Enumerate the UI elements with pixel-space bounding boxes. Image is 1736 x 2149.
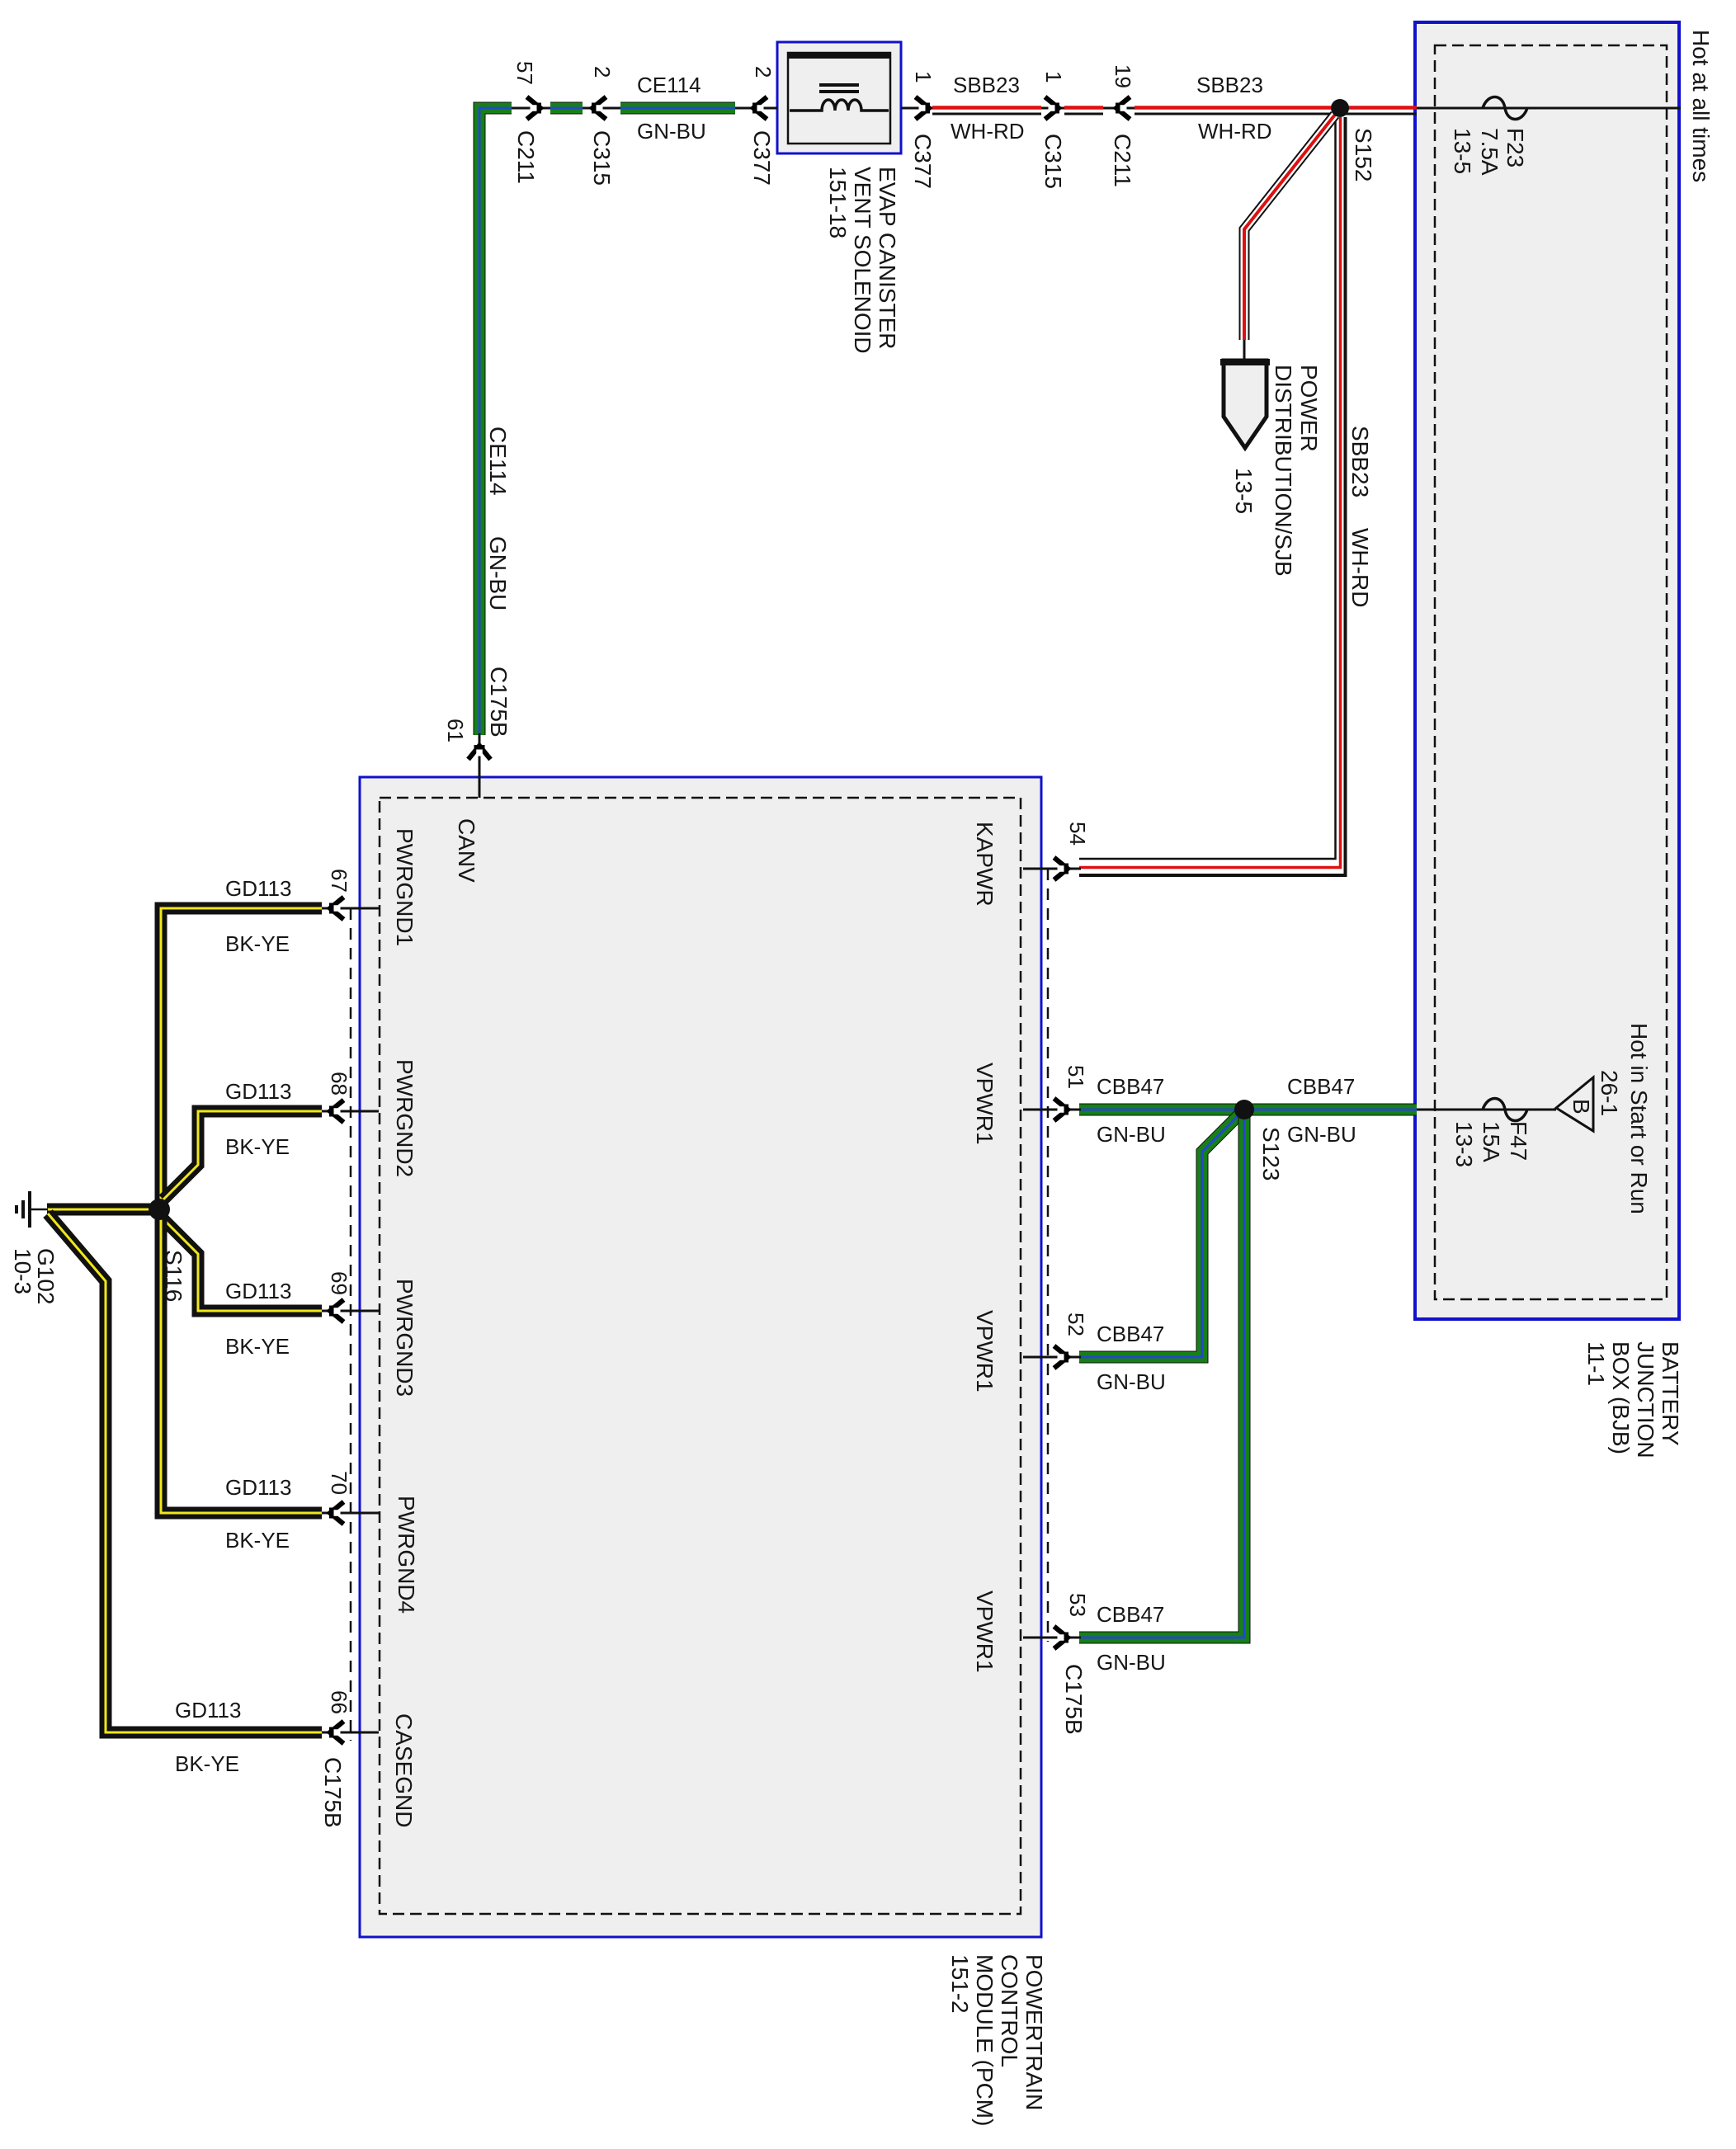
pin 61 CANV wire stub and arrow (479, 733, 481, 798)
svg-text:EVAP CANISTER: EVAP CANISTER (875, 167, 900, 349)
svg-text:151-18: 151-18 (825, 167, 851, 238)
connector C315 arrow (right) (1045, 97, 1060, 120)
svg-text:GN-BU: GN-BU (1097, 1650, 1166, 1675)
svg-text:CBB47: CBB47 (1097, 1074, 1164, 1099)
pin 68 PWRGND2 arrow (322, 1110, 379, 1113)
pin 66 CASEGND arrow (322, 1732, 379, 1734)
wire stub to off-page connector (1243, 340, 1246, 361)
pin 67 PWRGND1 arrow (322, 907, 379, 910)
svg-text:53: 53 (1065, 1593, 1090, 1617)
off-page connector POWER DISTRIBUTION/SJB (1224, 361, 1267, 448)
svg-text:BK-YE: BK-YE (175, 1751, 239, 1776)
svg-text:PWRGND3: PWRGND3 (392, 1279, 417, 1397)
powertrain control module PCM box (360, 777, 1041, 1937)
fuse F23 (1483, 97, 1527, 120)
svg-text:15A: 15A (1479, 1121, 1504, 1162)
svg-text:DISTRIBUTION/SJB: DISTRIBUTION/SJB (1271, 365, 1296, 577)
svg-text:CE114: CE114 (637, 73, 701, 97)
connector C211 arrow (right) (1116, 97, 1130, 120)
svg-text:26-1: 26-1 (1597, 1070, 1622, 1116)
wire SBB23 WH-RD segment C211 to BJB (1135, 108, 1417, 115)
svg-text:POWER: POWER (1296, 365, 1322, 452)
wire SBB23 WH-RD branch to power distribution (1244, 115, 1335, 340)
pin 53 VPWR1 arrow (1023, 1637, 1081, 1639)
svg-text:7.5A: 7.5A (1477, 128, 1502, 176)
pin 54 KAPWR arrow (1023, 868, 1081, 870)
svg-text:C315: C315 (589, 130, 615, 186)
pin 52 VPWR1 arrow (1023, 1356, 1081, 1359)
svg-text:GN-BU: GN-BU (1097, 1122, 1166, 1147)
svg-text:BK-YE: BK-YE (225, 931, 290, 956)
connector C211 arrow (top left) (527, 97, 542, 120)
svg-text:VPWR1: VPWR1 (972, 1063, 998, 1145)
wire GD113 BK-YE pin 69 to splice (163, 1219, 322, 1311)
svg-text:C377: C377 (910, 134, 936, 189)
svg-text:F47: F47 (1506, 1121, 1531, 1161)
svg-text:GN-BU: GN-BU (1287, 1122, 1356, 1147)
wire SBB23 WH-RD segment solenoid to C315 (932, 108, 1041, 115)
svg-text:151-2: 151-2 (947, 1954, 973, 2014)
wire GD113 BK-YE ground to splice (47, 1204, 162, 1216)
svg-text:C377: C377 (749, 130, 775, 186)
label BATTERY JUNCTION BOX (BJB) 11-1 (1583, 1341, 1683, 1459)
svg-text:51: 51 (1064, 1065, 1088, 1089)
svg-text:WH-RD: WH-RD (1198, 119, 1272, 144)
pin 51 VPWR1 arrow (1023, 1109, 1081, 1111)
svg-text:POWERTRAIN: POWERTRAIN (1021, 1954, 1047, 2110)
svg-text:GN-BU: GN-BU (637, 119, 706, 144)
svg-text:GD113: GD113 (225, 1079, 291, 1104)
wire CE114 GN-BU segment between C315 and C377 (620, 102, 735, 115)
pin 70 PWRGND4 arrow (322, 1512, 379, 1515)
svg-text:VPWR1: VPWR1 (972, 1591, 998, 1673)
svg-text:C175B: C175B (320, 1757, 346, 1828)
svg-text:GD113: GD113 (225, 876, 291, 901)
svg-text:G102: G102 (33, 1248, 59, 1305)
svg-text:MODULE (PCM): MODULE (PCM) (972, 1954, 998, 2126)
svg-text:66: 66 (327, 1690, 351, 1714)
pin 69 PWRGND3 arrow (322, 1310, 379, 1312)
svg-text:GN-BU: GN-BU (485, 536, 511, 610)
svg-text:C211: C211 (513, 130, 539, 184)
svg-text:52: 52 (1064, 1312, 1088, 1336)
splice S116 (149, 1199, 170, 1220)
svg-text:C315: C315 (1040, 134, 1066, 189)
svg-text:GN-BU: GN-BU (1097, 1369, 1166, 1394)
power source triangle B (1556, 1077, 1593, 1131)
svg-text:BK-YE: BK-YE (225, 1134, 290, 1159)
label EVAP CANISTER VENT SOLENOID 151-18 (825, 167, 900, 354)
wire SBB23 WH-RD vertical from S152 to KAPWR pin 54 (1079, 117, 1346, 875)
connector dashed line right C175B (1047, 869, 1050, 1642)
solenoid coil core lines (819, 83, 859, 93)
connector dashed line left C175B (350, 908, 352, 1741)
svg-text:Hot at all times: Hot at all times (1688, 30, 1714, 182)
svg-text:JUNCTION: JUNCTION (1633, 1341, 1658, 1459)
svg-text:2: 2 (590, 66, 615, 78)
svg-text:SBB23: SBB23 (953, 73, 1020, 97)
wire CBB47 GN-BU pin 51 to BJB through S123 (1079, 1104, 1417, 1116)
solenoid coil winding (790, 100, 889, 111)
svg-text:2: 2 (751, 66, 776, 78)
svg-text:CANV: CANV (454, 818, 479, 883)
svg-text:C175B: C175B (1061, 1664, 1087, 1735)
wire CE114 GN-BU jumper segment between C211 and C315 (550, 102, 583, 115)
svg-text:BATTERY: BATTERY (1658, 1341, 1683, 1446)
svg-text:GD113: GD113 (225, 1475, 291, 1500)
svg-text:67: 67 (327, 869, 351, 893)
connector C377 arrow (top) (752, 97, 767, 120)
splice S123 (1234, 1100, 1254, 1119)
wire GD113 BK-YE pin 68 to splice (163, 1111, 322, 1199)
svg-text:WH-RD: WH-RD (951, 119, 1025, 144)
svg-text:70: 70 (327, 1471, 351, 1495)
svg-text:13-5: 13-5 (1450, 128, 1475, 174)
svg-text:13-3: 13-3 (1451, 1121, 1477, 1167)
connector C315 arrow (top) (592, 97, 606, 120)
svg-text:CONTROL: CONTROL (997, 1954, 1022, 2067)
svg-text:C175B: C175B (486, 667, 512, 738)
svg-text:10-3: 10-3 (10, 1248, 35, 1294)
svg-text:BOX (BJB): BOX (BJB) (1608, 1341, 1634, 1454)
svg-text:GD113: GD113 (175, 1698, 241, 1722)
svg-text:WH-RD: WH-RD (1347, 528, 1373, 607)
svg-text:61: 61 (443, 719, 468, 742)
fuse F23 labels (1450, 128, 1528, 176)
fuse F47 (1417, 1109, 1556, 1111)
svg-text:1: 1 (911, 71, 936, 82)
ground G102 symbol (17, 1191, 48, 1228)
svg-text:CASEGND: CASEGND (391, 1713, 417, 1827)
svg-text:F23: F23 (1502, 128, 1528, 167)
svg-text:SBB23: SBB23 (1347, 426, 1373, 497)
svg-text:SBB23: SBB23 (1196, 73, 1263, 97)
svg-text:VENT SOLENOID: VENT SOLENOID (850, 167, 875, 354)
svg-text:CBB47: CBB47 (1097, 1602, 1164, 1627)
svg-text:54: 54 (1065, 822, 1090, 846)
svg-text:PWRGND1: PWRGND1 (392, 828, 417, 946)
svg-text:PWRGND2: PWRGND2 (392, 1059, 417, 1177)
splice S152 (1331, 99, 1349, 117)
svg-text:S152: S152 (1351, 128, 1376, 181)
svg-text:BK-YE: BK-YE (225, 1528, 290, 1553)
wire CBB47 GN-BU from S123 down to pin 53 (1079, 1115, 1244, 1638)
wire CE114 GN-BU colored segment at corner + vertical to pin 61 (479, 108, 512, 735)
svg-text:69: 69 (327, 1271, 351, 1295)
label POWER DISTRIBUTION/SJB (1231, 365, 1322, 577)
svg-text:CBB47: CBB47 (1097, 1322, 1164, 1346)
solenoid pin 1 arrow (916, 97, 931, 120)
svg-text:1: 1 (1041, 71, 1066, 82)
battery junction box BJB (1415, 22, 1679, 1319)
svg-text:11-1: 11-1 (1583, 1341, 1609, 1386)
wire GD113 BK-YE pin 66 branch (48, 1214, 322, 1732)
wire: thin line right of solenoid to BJB (901, 107, 1681, 110)
svg-text:CBB47: CBB47 (1287, 1074, 1355, 1099)
svg-text:13-5: 13-5 (1231, 468, 1257, 514)
svg-text:68: 68 (327, 1072, 351, 1096)
svg-text:B: B (1569, 1099, 1594, 1115)
wire GD113 BK-YE pin 70 to splice (161, 1214, 322, 1513)
wire: top run thin line left of solenoid (479, 107, 777, 110)
wire SBB23 WH-RD jumper between C315 and C211 (1064, 108, 1103, 115)
wire CBB47 GN-BU from S123 down-left to pin 52 (1079, 1113, 1241, 1357)
wire GD113 BK-YE pin 67 to splice (161, 908, 322, 1204)
svg-text:VPWR1: VPWR1 (972, 1310, 998, 1393)
svg-text:57: 57 (512, 61, 537, 85)
svg-text:19: 19 (1111, 64, 1135, 88)
svg-text:S116: S116 (161, 1250, 186, 1302)
svg-text:Hot in Start or Run: Hot in Start or Run (1626, 1023, 1652, 1214)
svg-text:PWRGND4: PWRGND4 (394, 1496, 419, 1614)
label POWERTRAIN CONTROL MODULE (PCM) 151-2 (947, 1954, 1047, 2126)
ground G102 label (10, 1248, 59, 1305)
svg-text:GD113: GD113 (225, 1279, 291, 1303)
svg-text:BK-YE: BK-YE (225, 1334, 290, 1359)
svg-text:C211: C211 (1110, 134, 1135, 187)
EVAP canister vent solenoid box (777, 42, 901, 153)
svg-text:CE114: CE114 (485, 427, 511, 496)
svg-text:KAPWR: KAPWR (972, 822, 998, 907)
svg-text:S123: S123 (1258, 1127, 1284, 1181)
